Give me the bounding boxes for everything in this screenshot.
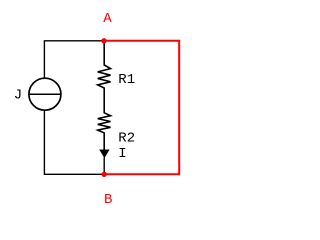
- svg-text:A: A: [103, 11, 112, 27]
- svg-text:R1: R1: [118, 72, 135, 88]
- svg-text:R2: R2: [118, 131, 135, 147]
- svg-text:I: I: [118, 146, 126, 162]
- svg-text:B: B: [104, 192, 112, 208]
- svg-text:J: J: [14, 87, 22, 103]
